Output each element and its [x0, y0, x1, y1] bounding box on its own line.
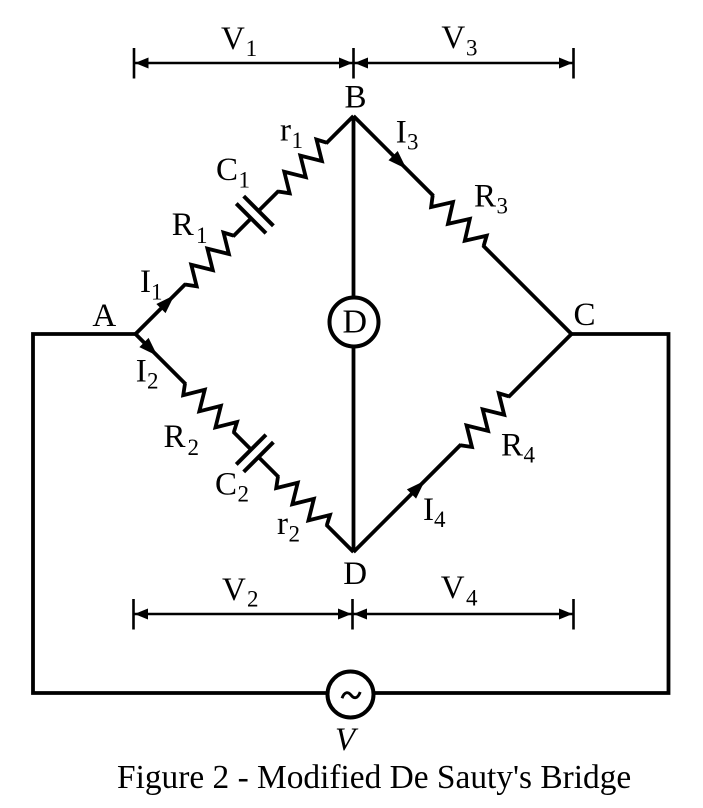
capacitor C1 plate 1 [236, 204, 266, 234]
wire B to detector [352, 116, 356, 298]
wire R3 to C [483, 245, 572, 334]
svg-text:1: 1 [239, 168, 251, 193]
svg-text:Figure 2 - Modified De Sauty's: Figure 2 - Modified De Sauty's Bridge [117, 759, 631, 796]
svg-text:R: R [164, 419, 186, 455]
svg-text:1: 1 [151, 280, 163, 305]
arrowhead top right-end pointing right [559, 58, 573, 69]
arrowhead bottom mid pointing left [354, 609, 368, 620]
wire B to R3 [354, 116, 434, 196]
svg-text:r: r [277, 506, 288, 542]
svg-text:4: 4 [524, 443, 536, 468]
wire r2 to D [326, 525, 353, 552]
svg-text:I: I [396, 115, 407, 151]
svg-text:3: 3 [466, 36, 478, 61]
wire C1 to r1 [259, 191, 279, 211]
wire D to R4 [354, 445, 461, 552]
svg-text:R: R [172, 207, 194, 243]
svg-text:R: R [474, 179, 496, 215]
svg-text:1: 1 [292, 128, 304, 153]
arrowhead bottom mid pointing right [338, 609, 352, 620]
arm A-D group (rotated +45 about A) [121, 319, 369, 567]
wire detector to D [352, 347, 356, 553]
svg-text:V: V [441, 20, 465, 56]
wire R1 to C1 [233, 218, 251, 236]
capacitor C2 plate 2 [244, 442, 274, 472]
tick left bottom [132, 599, 135, 630]
dimension line V1-V3 top [134, 62, 574, 64]
svg-text:3: 3 [497, 194, 509, 219]
resistor R3 [426, 188, 490, 252]
arrow I3 head [389, 151, 412, 174]
arrowhead bottom left-end pointing left [135, 609, 149, 620]
svg-text:2: 2 [289, 522, 301, 547]
arm D-C group (rotated -45 about D) [347, 327, 578, 558]
tick middle top [352, 48, 355, 79]
svg-text:I: I [423, 492, 434, 528]
resistor r2 [271, 470, 333, 532]
svg-text:V: V [441, 570, 465, 606]
svg-text:A: A [92, 298, 116, 334]
AC source circle [328, 672, 374, 718]
resistor r1 [271, 136, 333, 198]
arrowhead top left-end pointing left [135, 58, 149, 69]
dimension line V2-V4 bottom [134, 613, 574, 615]
svg-text:1: 1 [196, 223, 208, 248]
svg-text:3: 3 [407, 130, 419, 155]
arrow I1 head [156, 291, 179, 314]
outer loop wire right: C to right edge, down, to bottom [374, 334, 669, 693]
arm A-B group (rotated -45 about A) [121, 101, 369, 349]
wire r1 to B [326, 116, 353, 143]
detector circle [330, 298, 379, 347]
svg-text:2: 2 [188, 435, 200, 460]
tick right bottom [572, 599, 575, 630]
wire C2 to r2 [259, 457, 279, 477]
arrow I4 head [407, 476, 430, 499]
tilde inside source [342, 692, 360, 698]
svg-text:C: C [216, 152, 238, 188]
svg-text:V: V [221, 21, 245, 57]
wire A to R2 [136, 334, 186, 384]
tick right top [572, 48, 575, 79]
svg-text:I: I [136, 354, 147, 390]
tick middle bottom [351, 599, 354, 630]
svg-text:4: 4 [434, 507, 446, 532]
resistor R4 [454, 390, 516, 452]
svg-text:R: R [501, 428, 523, 464]
outer loop wire left: A to left edge, down, to bottom [33, 334, 328, 693]
svg-text:1: 1 [246, 36, 258, 61]
arrowhead top mid pointing left [355, 58, 369, 69]
capacitor C1 plate 2 [244, 196, 274, 226]
svg-text:4: 4 [466, 586, 478, 611]
svg-text:D: D [343, 304, 368, 341]
svg-text:r: r [280, 113, 291, 149]
arrowhead top mid pointing right [339, 58, 353, 69]
resistor R2 [178, 377, 240, 439]
svg-text:B: B [345, 80, 367, 116]
arrowhead bottom right-end pointing right [559, 609, 573, 620]
arm B-C group (rotated +45 about B) [347, 109, 578, 340]
svg-text:V: V [222, 572, 246, 608]
capacitor C2 plate 1 [236, 435, 266, 465]
svg-text:C: C [215, 467, 237, 503]
wire A to R1 [136, 284, 186, 334]
tick left top [133, 48, 136, 79]
wire R2 to C2 [233, 432, 251, 450]
wire R4 to C [508, 334, 571, 397]
svg-text:I: I [140, 264, 151, 300]
svg-text:2: 2 [238, 482, 250, 507]
svg-text:2: 2 [247, 587, 259, 612]
arrow I2 head [139, 338, 162, 361]
svg-text:C: C [574, 297, 596, 333]
svg-text:D: D [343, 556, 367, 592]
resistor R1 [178, 229, 240, 291]
svg-text:2: 2 [147, 369, 159, 394]
